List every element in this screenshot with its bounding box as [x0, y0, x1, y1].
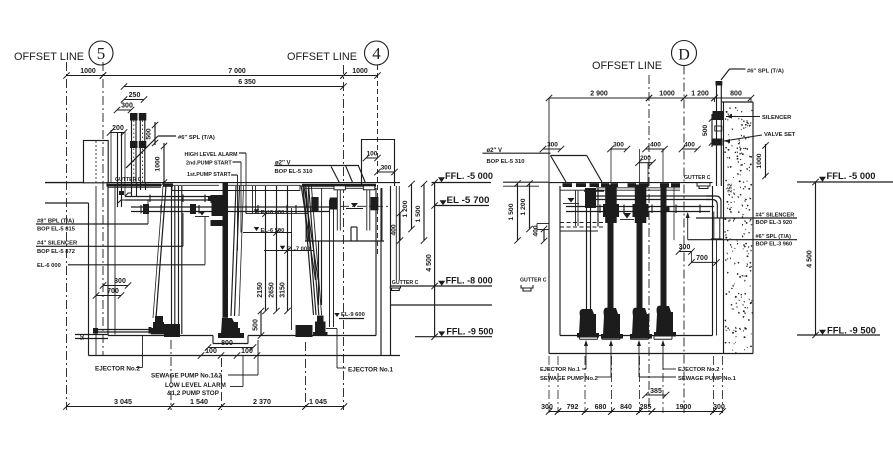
- svg-text:1000: 1000: [756, 153, 763, 168]
- extension line x=674 right pit: [673, 186, 675, 240]
- grid bubble 5: [89, 41, 113, 65]
- dimension 400 right pit: [543, 229, 545, 241]
- right pit right inner wall: [712, 186, 714, 336]
- pump base plate right: [584, 190, 604, 192]
- right top dimension 2 900: [549, 97, 649, 99]
- floor recesses under pumps: [580, 338, 598, 340]
- right pipe flanges: [599, 205, 601, 214]
- dimension 1000 wall vertical: [765, 144, 767, 178]
- bottom dimension 1 045: [306, 406, 345, 408]
- svg-text:SEWAGE PUMP No.1: SEWAGE PUMP No.1: [678, 376, 737, 382]
- dimension 100 left of sump: [201, 355, 221, 357]
- svg-text:400: 400: [391, 224, 398, 236]
- svg-text:1 540: 1 540: [190, 397, 208, 406]
- ejector No.1 low level wire: [291, 208, 293, 330]
- dimension 385 boxed: [646, 394, 667, 396]
- dimension 4 500 mid: [434, 183, 436, 337]
- svg-text:SEWAGE PUMP No.1&2: SEWAGE PUMP No.1&2: [151, 373, 222, 380]
- dimension 100 at grid4: [366, 157, 378, 159]
- float leader 2nd pump start: [240, 162, 242, 233]
- grid line aux x=103: [102, 62, 104, 356]
- thin pipes left of risers: [117, 132, 119, 207]
- grid line offset right: [648, 75, 650, 413]
- pump sump recess: [212, 336, 214, 344]
- svg-text:FFL. -9 500: FFL. -9 500: [446, 327, 493, 337]
- grid bubble 4: [365, 41, 389, 65]
- svg-text:500: 500: [146, 128, 153, 140]
- right pump 4 body: [656, 306, 673, 333]
- svg-text:2150: 2150: [257, 282, 264, 298]
- svg-text:6 350: 6 350: [238, 79, 256, 86]
- riser elbows below ground: [131, 183, 133, 196]
- dimension 3150 vertical: [287, 186, 289, 311]
- chamber notch: [350, 227, 352, 241]
- dimension 4 500 right: [815, 182, 817, 335]
- right slab soffit pipe lines: [596, 187, 680, 189]
- svg-text:2650: 2650: [269, 282, 276, 298]
- sewage pump top valve assembly: [211, 195, 223, 203]
- chamber drop pipe right pit: [575, 190, 577, 226]
- right bottom dimensions: [549, 411, 558, 413]
- slab collar at ejector No.2 rails: [163, 183, 173, 186]
- ejector No.2 guide rails: [171, 186, 173, 334]
- ejector No.1 guide rails: [306, 186, 316, 315]
- right ground surface line: [549, 182, 713, 184]
- chamber hanging pipe 1: [334, 186, 345, 190]
- svg-text:800: 800: [730, 91, 742, 98]
- dimension 300 riser: [117, 109, 131, 111]
- svg-text:BOP EL-5 310: BOP EL-5 310: [275, 169, 313, 175]
- ejector No.2 pot block: [164, 324, 180, 337]
- svg-text:50: 50: [80, 334, 86, 340]
- pipe flanges: [149, 195, 151, 203]
- float guide pipe: [252, 186, 254, 214]
- right leader slants to slab: [551, 155, 587, 157]
- grid line 4 centerline: [343, 65, 345, 410]
- dimension 2650 vertical: [276, 186, 278, 311]
- dimension 800 sump: [208, 347, 253, 349]
- level EL-6 500: [243, 232, 292, 234]
- dimension 200 riser: [110, 132, 124, 134]
- svg-text:100: 100: [367, 151, 378, 158]
- pit floor: [108, 335, 213, 337]
- chamber EL dash-dot line: [340, 205, 391, 207]
- vent riser pipe 2 with cap: [139, 113, 147, 121]
- svg-text:1st.PUMP START: 1st.PUMP START: [187, 172, 232, 178]
- svg-text:1000: 1000: [352, 68, 368, 75]
- svg-text:FFL. -8 000: FFL. -8 000: [446, 275, 493, 285]
- right pit left outer wall: [548, 183, 550, 354]
- pit left inner wall: [107, 186, 109, 336]
- right pit left inner wall: [559, 186, 561, 336]
- svg-text:700: 700: [696, 255, 708, 262]
- leader slants to chamber: [331, 166, 340, 183]
- level FFL -9 500 right: [819, 330, 826, 335]
- ejector No.1 pump body: [317, 316, 324, 323]
- right pipe wall elbow: [706, 196, 721, 218]
- svg-text:800: 800: [221, 340, 233, 347]
- svg-text:3150: 3150: [280, 282, 287, 298]
- ground line left of pit: [45, 182, 84, 184]
- level EL-9 600 flag: [334, 313, 340, 317]
- right pit bottom slab: [549, 353, 753, 355]
- chamber flange blob left: [311, 197, 318, 211]
- leader arrow to pipe elbow: [686, 212, 690, 218]
- bottom dimension 1 540: [171, 406, 222, 408]
- svg-text:400: 400: [684, 142, 695, 149]
- svg-text:100: 100: [205, 348, 217, 355]
- svg-text:#6″ SPL (T/A): #6″ SPL (T/A): [747, 68, 784, 74]
- svg-text:HIGH LEVEL ALARM: HIGH LEVEL ALARM: [185, 152, 239, 158]
- svg-text:VALVE SET: VALVE SET: [764, 132, 796, 138]
- svg-text:252: 252: [728, 183, 734, 192]
- svg-text:300: 300: [713, 404, 725, 411]
- right dim extension lines: [548, 98, 550, 183]
- svg-text:SILENCER: SILENCER: [762, 115, 792, 121]
- pit right wall: [375, 188, 377, 336]
- svg-text:1 200: 1 200: [402, 200, 409, 217]
- ejector No.2 leader: [142, 336, 144, 368]
- pipe valve blobs: [143, 204, 149, 214]
- svg-text:200: 200: [112, 125, 124, 132]
- right pit wall face below elbow: [716, 239, 718, 336]
- low level alarm leader: [242, 356, 244, 387]
- pit floor right part: [248, 335, 376, 337]
- svg-text:BOP EL-3 920: BOP EL-3 920: [756, 220, 793, 226]
- right top dimension 800: [715, 97, 752, 99]
- right small chamber: [597, 188, 599, 227]
- svg-text:#6″ SPL (T/A): #6″ SPL (T/A): [756, 234, 792, 240]
- bottom dimension 2 370: [222, 406, 306, 408]
- ejector No.2 pump body: [155, 316, 163, 323]
- wall pipe shaft above slab: [716, 85, 718, 186]
- dimension 300 at grid4: [378, 171, 395, 173]
- svg-text:1 200: 1 200: [520, 198, 527, 215]
- svg-text:#6″ SPL (T/A): #6″ SPL (T/A): [178, 135, 215, 141]
- svg-text:EL-6 500: EL-6 500: [261, 228, 285, 234]
- svg-text:4 500: 4 500: [807, 250, 814, 268]
- svg-text:1900: 1900: [676, 404, 692, 411]
- svg-text:FFL. -5 000: FFL. -5 000: [827, 171, 876, 181]
- level FFL -8 000 mid: [438, 281, 445, 286]
- right pump 2 body: [603, 308, 620, 335]
- svg-text:250: 250: [129, 92, 141, 99]
- svg-text:BOP EL-5 310: BOP EL-5 310: [487, 159, 525, 165]
- ejector No.2 suction nozzle: [95, 329, 152, 331]
- dimension 700 right lower: [692, 261, 717, 263]
- svg-text:700: 700: [107, 288, 119, 295]
- svg-text:840: 840: [620, 404, 632, 411]
- sewage pump discharge column: [223, 183, 229, 318]
- structure lines near grid4 above slab: [361, 139, 363, 186]
- svg-text:1000: 1000: [80, 68, 96, 75]
- vent riser pipe 1 with cap: [130, 113, 138, 121]
- water level mark in pit: [199, 211, 206, 216]
- ejector No.1 lifting chain: [303, 186, 314, 315]
- svg-text:300: 300: [381, 165, 392, 172]
- svg-text:#8″ BPL (T/A): #8″ BPL (T/A): [37, 218, 74, 224]
- svg-text:1000: 1000: [155, 156, 162, 171]
- right pump column 3 (sewage pump No.1): [637, 186, 643, 314]
- right bottom extension lines: [548, 356, 550, 413]
- svg-text:1 045: 1 045: [309, 397, 327, 406]
- svg-text:GUTTER C: GUTTER C: [520, 278, 547, 284]
- level EL-6 000: [246, 213, 308, 215]
- pit floor left ledge lines: [75, 334, 108, 336]
- right top dimension 1000: [649, 97, 684, 99]
- dimension 300 right lower: [679, 251, 692, 253]
- svg-text:680: 680: [595, 404, 607, 411]
- svg-text:LOW LEVEL ALARM: LOW LEVEL ALARM: [165, 382, 226, 389]
- dimension 1000 vertical: [163, 143, 165, 184]
- right slab anchor plates: [563, 183, 573, 187]
- svg-text:1000: 1000: [659, 91, 675, 98]
- chamber slanted vent pipe: [301, 185, 316, 280]
- svg-text:400: 400: [533, 225, 540, 237]
- right pump column 4 (ejector No.2): [661, 186, 667, 312]
- level EL-7 000: [264, 250, 313, 252]
- silencer on wall pipe: [713, 111, 724, 120]
- svg-text:385: 385: [650, 388, 662, 395]
- svg-text:200: 200: [640, 155, 651, 162]
- svg-text:1 500: 1 500: [508, 203, 515, 220]
- grid line D centerline: [683, 66, 685, 414]
- float leader high level: [245, 153, 247, 214]
- bottom dimension 3 045: [67, 406, 172, 408]
- dimension 700 left lower: [96, 295, 121, 297]
- dimension 1 200 right pit: [529, 184, 531, 230]
- dimension 1 500 mid: [423, 184, 425, 241]
- svg-text:D: D: [678, 47, 690, 64]
- right pipe run lower: [566, 206, 714, 208]
- svg-text:300: 300: [114, 278, 126, 285]
- level FFL -5 000 mid: [438, 177, 445, 182]
- spacing extension lines: [610, 149, 612, 186]
- right pipe run upper: [596, 195, 713, 197]
- dimension 500 vertical at sump: [260, 311, 262, 336]
- svg-text:285: 285: [640, 404, 652, 411]
- grid bubble D: [672, 41, 697, 66]
- dimension 1 200 mid: [411, 184, 413, 229]
- float leader 1st pump start: [237, 175, 239, 251]
- sewage pump leader no.1&2: [257, 340, 259, 375]
- level FFL -9 500 mid: [438, 331, 445, 336]
- ejector No.2 lifting chain: [156, 186, 166, 318]
- top dimension 7 000: [103, 75, 344, 77]
- svg-text:792: 792: [567, 404, 579, 411]
- svg-text:4 500: 4 500: [426, 254, 433, 272]
- svg-text:GUTTER C: GUTTER C: [684, 175, 711, 181]
- svg-text:OFFSET LINE: OFFSET LINE: [592, 60, 662, 72]
- svg-text:EL-9 600: EL-9 600: [341, 312, 365, 318]
- pit bottom slab: [89, 355, 401, 357]
- chamber flange blob mid: [330, 198, 337, 210]
- dimension 250: [124, 99, 144, 101]
- small chamber walls: [305, 188, 307, 241]
- svg-text:1 200: 1 200: [691, 91, 709, 98]
- right pit floor: [560, 335, 713, 337]
- svg-text:3 045: 3 045: [114, 397, 132, 406]
- top dimension 6 350: [124, 86, 344, 88]
- chamber hanging pipe 2: [363, 186, 374, 190]
- svg-text:300: 300: [679, 244, 691, 251]
- svg-text:2 370: 2 370: [253, 397, 271, 406]
- grid line 5 centerline: [66, 62, 68, 410]
- svg-text:BOP EL-3 960: BOP EL-3 960: [756, 242, 793, 248]
- svg-text:500: 500: [253, 319, 260, 331]
- valve set on wall pipe: [715, 126, 722, 131]
- svg-text:&1,2 PUMP STOP: &1,2 PUMP STOP: [167, 390, 219, 397]
- grid line aux x=377.5: [377, 65, 379, 255]
- ejector No.1 leader: [326, 328, 337, 330]
- svg-text:4: 4: [372, 44, 381, 63]
- svg-text:5: 5: [97, 44, 106, 63]
- right top dimension 1 200: [684, 97, 715, 99]
- right pump leaders: [584, 340, 588, 346]
- svg-text:FFL. -5 000: FFL. -5 000: [445, 171, 493, 181]
- extension line x=171: [170, 340, 172, 410]
- svg-text:7 000: 7 000: [228, 68, 246, 75]
- ground surface line across pit: [107, 182, 401, 184]
- svg-text:300: 300: [541, 404, 553, 411]
- horizontal pipe A: [125, 196, 213, 198]
- left wall pipe stub right pit: [537, 223, 549, 225]
- top slab thick segment A (gutter area): [107, 184, 162, 187]
- wall curb box above ground: [84, 141, 109, 183]
- svg-text:EJECTOR No.1: EJECTOR No.1: [348, 367, 394, 374]
- extension line x=305.5: [305, 342, 307, 410]
- top dimension 1000 (grid4): [344, 75, 378, 77]
- dimension 500 vertical: [154, 122, 156, 145]
- right pump spacing dims: [543, 148, 561, 150]
- right pump 3 body: [632, 308, 649, 335]
- right pump 1 body: [579, 309, 596, 334]
- ejector No.1 discharge riser: [329, 200, 331, 328]
- ledge line to mid column: [391, 304, 492, 306]
- dimension 300 left lower: [103, 285, 128, 287]
- level EL -5 700 mid: [440, 200, 447, 205]
- extension line x=221.5: [221, 358, 223, 410]
- svg-text:EL -5 700: EL -5 700: [447, 195, 490, 205]
- svg-text:400: 400: [650, 142, 661, 149]
- sewage pump bottom body: [221, 318, 240, 334]
- svg-text:OFFSET LINE: OFFSET LINE: [287, 51, 357, 63]
- top dimension 1000 (grid5): [67, 75, 104, 77]
- chamber flange blob right: [370, 197, 378, 210]
- svg-text:2 900: 2 900: [590, 91, 608, 98]
- right ground slab lip: [503, 181, 549, 183]
- dimension 400 mid: [399, 213, 401, 241]
- dimension 2150 vertical: [265, 186, 267, 311]
- top slab thick segment B (small chamber top): [302, 184, 376, 187]
- svg-text:FFL. -9 500: FFL. -9 500: [827, 325, 876, 335]
- right pit water level mark: [623, 213, 631, 219]
- svg-text:EJECTOR No.2: EJECTOR No.2: [95, 366, 141, 373]
- svg-text:100: 100: [241, 348, 253, 355]
- svg-text:BOP EL-5 815: BOP EL-5 815: [37, 227, 76, 233]
- svg-text:2nd.PUMP START: 2nd.PUMP START: [186, 161, 232, 167]
- svg-text:300: 300: [613, 142, 624, 149]
- svg-text:300: 300: [547, 142, 558, 149]
- slab opening cover plate: [172, 184, 219, 186]
- dimension 500 wall vertical: [711, 114, 713, 147]
- ejector No.1 pot block: [296, 325, 313, 337]
- horizontal pipe B: [131, 206, 334, 208]
- svg-text:EJECTOR No.1: EJECTOR No.1: [540, 367, 580, 373]
- right pump column 2 (sewage pump No.2): [608, 186, 614, 314]
- chamber drop pipe to ledge: [318, 241, 320, 305]
- svg-text:1 500: 1 500: [415, 205, 422, 222]
- concrete wall with hatch: [737, 243, 739, 245]
- svg-text:500: 500: [702, 125, 709, 137]
- svg-text:EL-6 000: EL-6 000: [37, 263, 61, 269]
- right pump column 1 (ejector No.1): [585, 188, 596, 208]
- sewage pump guide rails: [231, 186, 236, 316]
- svg-text:GUTTER C: GUTTER C: [392, 280, 419, 286]
- chamber water level mark: [351, 203, 358, 208]
- svg-text:OFFSET LINE: OFFSET LINE: [14, 51, 84, 63]
- riser flange blobs: [130, 141, 138, 148]
- svg-text:300: 300: [121, 103, 133, 110]
- pit left outer wall: [88, 203, 90, 356]
- dimension 1 500 right pit: [517, 184, 519, 241]
- svg-text:BOP EL-5 872: BOP EL-5 872: [37, 249, 75, 255]
- right chamber water level: [568, 198, 575, 203]
- level FFL -5 000 right: [819, 177, 826, 182]
- dimension 100 right of sump: [237, 355, 257, 357]
